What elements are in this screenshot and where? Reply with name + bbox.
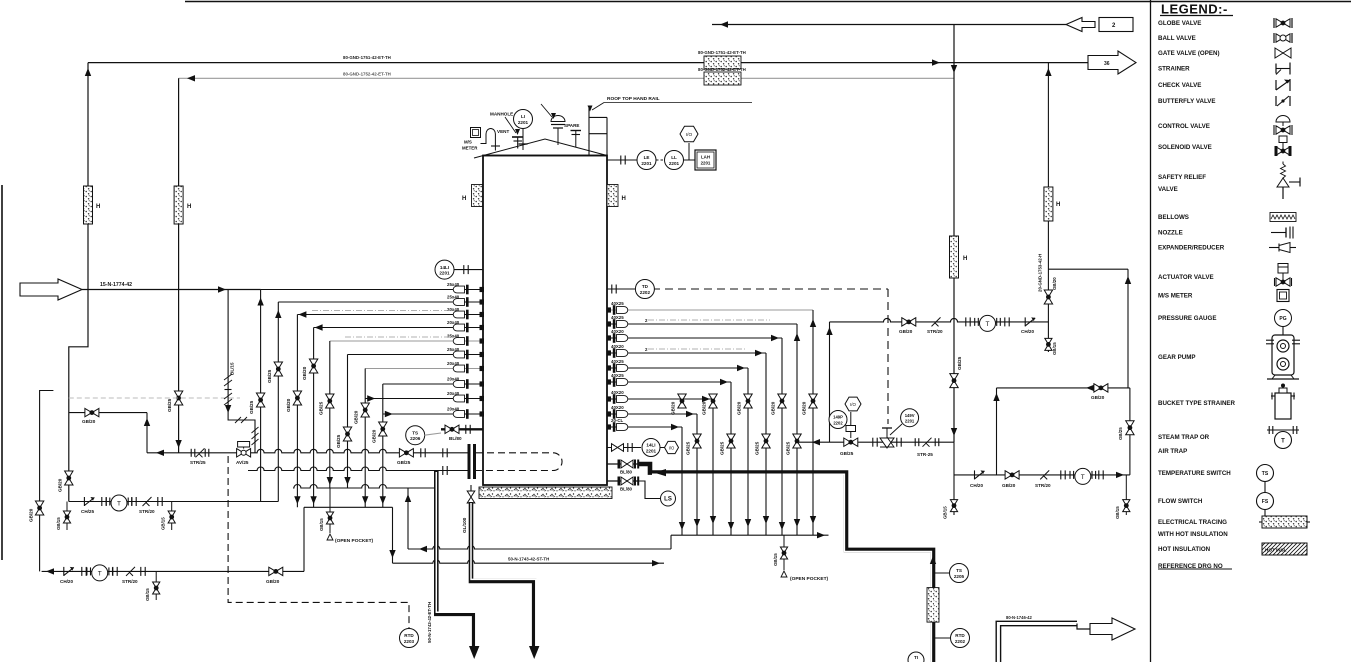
strainer STR-25: [923, 438, 932, 447]
instrument 14LI/2201 bottom: [642, 439, 660, 457]
svg-text:RTD: RTD: [955, 633, 965, 638]
legend symbol expander: [1269, 247, 1279, 249]
svg-text:20x40: 20x40: [447, 307, 460, 312]
pipe to drain pit (double line): [996, 621, 1077, 662]
svg-text:20x40: 20x40: [447, 391, 460, 396]
wire right manifold drop 1: [812, 310, 814, 535]
valve GB/25 right drop 8: [693, 434, 701, 448]
wire collector L2: [293, 485, 436, 489]
legend symbol ref: [1158, 568, 1232, 570]
wire TD tapping: [607, 288, 635, 290]
svg-text:ST-TRACED: ST-TRACED: [934, 597, 938, 619]
svg-text:STRAINER: STRAINER: [1158, 66, 1190, 73]
wire right block right drop: [1129, 388, 1131, 475]
wire tank-left feed row 5: [330, 340, 483, 342]
wire faint line spec row5: [345, 336, 452, 338]
wire faint line spec rowR2: [648, 319, 770, 321]
flow element H left riser 1: [84, 186, 93, 224]
wire tank-right feed row 5: [607, 367, 748, 369]
valve GB/25 on left riser 2: [174, 391, 182, 405]
svg-text:GB/25: GB/25: [686, 441, 691, 455]
wire tank-left feed row 6: [348, 354, 484, 356]
svg-text:VALVE: VALVE: [1158, 186, 1178, 193]
wire right manifold drop 6: [730, 382, 732, 535]
wire tank-right feed row 2: [607, 323, 797, 325]
svg-text:H: H: [187, 204, 191, 210]
steam trap recirc: [974, 318, 976, 326]
svg-text:BL/80: BL/80: [449, 436, 462, 441]
svg-text:ACTUATOR VALVE: ACTUATOR VALVE: [1158, 274, 1214, 281]
breather valve: [551, 116, 565, 122]
svg-text:25x40: 25x40: [447, 282, 460, 287]
svg-text:CH/20: CH/20: [970, 483, 983, 488]
svg-text:GB/25: GB/25: [786, 441, 791, 455]
svg-text:GB/20: GB/20: [771, 401, 776, 415]
svg-text:STR/20: STR/20: [1035, 483, 1051, 488]
svg-text:TEMPERATURE SWITCH: TEMPERATURE SWITCH: [1158, 470, 1231, 477]
svg-text:ROOF TOP HAND RAIL: ROOF TOP HAND RAIL: [607, 96, 660, 102]
drain GB/15 tee a: [66, 502, 68, 531]
svg-text:TD: TD: [642, 284, 649, 289]
wire tank-right feed row 6: [607, 381, 731, 383]
drain GB/15 tee b: [171, 502, 173, 531]
legend symbol ts: [1257, 465, 1274, 482]
svg-text:TI: TI: [914, 655, 918, 660]
wire right block bottom: [954, 474, 1130, 476]
svg-text:2201: 2201: [641, 161, 652, 166]
svg-text:GB/20: GB/20: [737, 401, 742, 415]
svg-text:GLOBE VALVE: GLOBE VALVE: [1158, 20, 1201, 27]
instrument TS/2205: [935, 572, 950, 574]
svg-text:BUTTERFLY VALVE: BUTTERFLY VALVE: [1158, 98, 1216, 105]
svg-text:T: T: [1081, 474, 1085, 481]
legend symbol solenoid: [1276, 147, 1290, 155]
legend symbol et: [1262, 516, 1307, 528]
svg-text:LL: LL: [671, 155, 677, 160]
svg-text:GB/25: GB/25: [267, 369, 272, 383]
svg-text:STEAM TRAP OR: STEAM TRAP OR: [1158, 434, 1210, 441]
steam trap: [86, 567, 88, 575]
open pocket tee left: [329, 488, 331, 533]
svg-text:H: H: [462, 196, 466, 202]
wire tank-left feed row 9: [365, 398, 483, 400]
svg-text:(OPEN POCKET): (OPEN POCKET): [335, 538, 374, 544]
instrument RTD/2203: [400, 629, 419, 648]
flow element H right riser: [950, 236, 959, 278]
wire left riser 2: [178, 78, 180, 453]
wire tank-right feed row 8: [607, 413, 697, 415]
wire LE-LL link: [656, 159, 665, 161]
svg-text:GL/100: GL/100: [462, 517, 467, 533]
tank outlet BL/80 upper: [607, 463, 638, 465]
svg-text:MANHOLE: MANHOLE: [490, 112, 513, 117]
svg-text:GB/25: GB/25: [336, 434, 341, 448]
svg-text:LEGEND:-: LEGEND:-: [1161, 2, 1228, 17]
wire right manifold drop 2: [796, 324, 798, 535]
svg-text:40X20: 40X20: [611, 344, 624, 349]
open pocket tee right: [783, 535, 785, 570]
svg-text:GB/15: GB/15: [145, 588, 150, 601]
valve GB/25 right drop 2: [793, 434, 801, 448]
legend symbol gate: [1275, 48, 1291, 58]
svg-text:14LI: 14LI: [440, 265, 449, 270]
wire top connector line: [712, 24, 1066, 26]
off-page connector top right (incoming): [1066, 18, 1095, 32]
siphon loop: [481, 129, 496, 151]
drain GB/15 tee c: [155, 571, 157, 600]
wire GND riser: [1047, 63, 1049, 352]
svg-text:CHECK VALVE: CHECK VALVE: [1158, 82, 1201, 89]
strainer STR/20 recirc: [932, 317, 941, 326]
valve GB/25 right riser: [950, 374, 958, 388]
wire tank-right feed row 4: [607, 352, 766, 354]
riser to recirculation header: [829, 322, 831, 442]
svg-text:(OPEN POCKET): (OPEN POCKET): [790, 576, 829, 582]
wire steam supply bus: [147, 449, 469, 453]
heavy drain GL/100: [470, 485, 472, 492]
svg-text:STR-25: STR-25: [917, 452, 933, 457]
wire tank-left feed row 2: [278, 301, 483, 303]
svg-text:STR/20: STR/20: [122, 579, 138, 584]
svg-text:M/S METER: M/S METER: [1158, 293, 1193, 300]
svg-text:GB/25: GB/25: [720, 441, 725, 455]
alarm box LAH/2201: [695, 150, 716, 170]
svg-text:SOLENOID VALVE: SOLENOID VALVE: [1158, 144, 1212, 151]
legend symbol trap: [1267, 429, 1299, 431]
legend symbol safety: [1277, 178, 1289, 187]
instrument RTD/2202: [935, 637, 950, 639]
svg-text:GB/20: GB/20: [702, 401, 707, 415]
svg-text:40X20: 40X20: [611, 390, 624, 395]
steam trap rb: [1069, 471, 1071, 479]
svg-text:LI: LI: [521, 114, 525, 119]
wire collector L3: [304, 506, 393, 508]
legend symbol pump: [1272, 335, 1294, 375]
svg-text:H: H: [963, 256, 967, 262]
heavy outlet header H1: [639, 464, 933, 662]
steam trap: [105, 498, 107, 506]
wire faint line spec rowR4: [648, 348, 745, 350]
svg-text:M/S: M/S: [464, 140, 472, 145]
signal dashed vertical: [887, 289, 889, 424]
svg-text:CH/20: CH/20: [1021, 329, 1034, 334]
svg-text:GB/25: GB/25: [840, 451, 854, 456]
svg-text:80-N-1746-42: 80-N-1746-42: [1006, 615, 1033, 620]
wire far-left column: [40, 391, 54, 572]
legend symbol fs: [1257, 493, 1274, 510]
svg-text:GB/20: GB/20: [802, 401, 807, 415]
border top: [185, 1, 1351, 3]
valve GB/20 left drop 4: [309, 359, 317, 373]
wire left manifold drop 7: [364, 369, 366, 508]
svg-text:GEAR PUMP: GEAR PUMP: [1158, 354, 1195, 361]
svg-text:HOT INSL: HOT INSL: [1265, 548, 1287, 553]
svg-text:40X25: 40X25: [611, 373, 624, 378]
svg-text:2205: 2205: [954, 574, 965, 579]
hexagon I/O cv: [845, 397, 861, 411]
svg-text:GB/20: GB/20: [286, 398, 291, 412]
svg-text:GB/15: GB/15: [56, 517, 61, 530]
border left: [1, 185, 3, 560]
svg-text:EXPANDER/REDUCER: EXPANDER/REDUCER: [1158, 245, 1225, 252]
valve GB/20 right drop 9: [678, 394, 686, 408]
electrical tracing symbol on header: [704, 56, 741, 69]
wire left riser 1: [87, 63, 89, 290]
wire tank-left feed row 3: [297, 314, 483, 316]
wire riser 1 lower jog: [69, 290, 88, 502]
svg-text:GB/25: GB/25: [957, 356, 962, 370]
svg-text:15-N-1774-42: 15-N-1774-42: [100, 282, 132, 288]
valve GB/25 right drop 6: [727, 434, 735, 448]
steam traced marker: [927, 588, 939, 623]
instrument LS: [661, 491, 676, 506]
svg-text:METER: METER: [462, 146, 478, 151]
valve GB/20 bottom west: [269, 567, 283, 575]
coil wall flanges: [468, 444, 471, 479]
svg-text:2201: 2201: [439, 270, 450, 275]
legend separator: [1150, 0, 1152, 662]
svg-text:BUCKET TYPE STRAINER: BUCKET TYPE STRAINER: [1158, 400, 1236, 407]
svg-text:GB/20: GB/20: [1002, 483, 1016, 488]
wire right riser lower: [953, 442, 955, 515]
wire faint line spec row3: [312, 310, 452, 312]
svg-text:GB/15: GB/15: [943, 506, 948, 519]
svg-text:14LI: 14LI: [646, 443, 655, 448]
valve GB/25 left drop 2: [274, 362, 282, 376]
svg-text:WITH HOT INSULATION: WITH HOT INSULATION: [1158, 531, 1228, 538]
svg-text:40X25: 40X25: [611, 315, 624, 320]
svg-text:FLOW SWITCH: FLOW SWITCH: [1158, 498, 1203, 505]
svg-text:20x40: 20x40: [447, 407, 460, 412]
wire LL to LAH: [684, 159, 696, 161]
wire tank-left feed row 10: [383, 413, 483, 415]
svg-text:BL/80: BL/80: [620, 470, 633, 475]
actuator valve 149V: [872, 438, 874, 447]
legend symbol check: [1275, 80, 1277, 90]
check valve CH/20 rb: [974, 470, 976, 479]
wire condensate return bus: [248, 467, 469, 471]
svg-text:SPARE: SPARE: [564, 123, 580, 128]
svg-text:CH/20: CH/20: [60, 579, 73, 584]
svg-text:25x40: 25x40: [447, 295, 460, 300]
wire gray second header: [179, 77, 954, 79]
wire bypass riser: [146, 413, 148, 453]
svg-text:CONTROL VALVE: CONTROL VALVE: [1158, 123, 1210, 130]
svg-text:2201: 2201: [905, 419, 915, 424]
svg-text:T: T: [117, 501, 121, 508]
svg-text:20-GND-1753-42-H: 20-GND-1753-42-H: [1038, 254, 1043, 292]
svg-text:GB/20: GB/20: [354, 410, 359, 424]
legend symbol globe: [1276, 19, 1290, 27]
wire right block riser: [996, 388, 998, 475]
valve GB/20 right drop 7: [709, 394, 717, 408]
svg-text:GB/20: GB/20: [899, 329, 913, 334]
nozzle H tank right: [607, 185, 618, 207]
svg-text:149V: 149V: [905, 413, 915, 418]
legend symbol hi: [1262, 543, 1307, 555]
svg-text:GB/20: GB/20: [58, 478, 63, 492]
wire right manifold drop 9: [681, 427, 683, 535]
wire line B: [393, 560, 665, 564]
strainer STR/25: [196, 448, 205, 457]
svg-text:LS: LS: [664, 497, 672, 503]
wire LE tapping: [607, 159, 637, 161]
svg-text:T: T: [98, 570, 102, 577]
legend symbol ball: [1276, 34, 1290, 42]
valve GB/20 right block: [1094, 384, 1108, 392]
wire tank-left feed row 7: [365, 368, 483, 370]
svg-text:80-GND-1752-42-ET-TH: 80-GND-1752-42-ET-TH: [698, 67, 746, 72]
level instrument LI/2201 on roof: [514, 110, 533, 129]
svg-text:GB/25: GB/25: [397, 460, 411, 465]
wire right manifold drop 5: [747, 368, 749, 535]
svg-text:80-GND-1751-42-ET-TH: 80-GND-1751-42-ET-TH: [698, 50, 746, 55]
svg-text:40X25: 40X25: [611, 301, 624, 306]
strainer STR/20 rb: [1040, 470, 1049, 479]
tank outlet BL/80 lower: [607, 480, 638, 482]
svg-text:BL/15: BL/15: [230, 362, 235, 375]
svg-text:GB/20: GB/20: [29, 508, 34, 522]
svg-text:ELECTRICAL TRACING: ELECTRICAL TRACING: [1158, 519, 1227, 526]
svg-text:RTD: RTD: [404, 633, 414, 638]
valve GB/15 GND drop: [1045, 338, 1052, 350]
svg-text:GB/25: GB/25: [1118, 427, 1123, 440]
legend symbol control: [1276, 126, 1290, 134]
valve GB/20 on left drop: [65, 471, 73, 485]
roof top hand rail: [588, 108, 590, 156]
svg-text:STR/20: STR/20: [139, 509, 155, 514]
svg-text:GB/15: GB/15: [319, 518, 324, 531]
valve GB/20 right drop 5: [744, 394, 752, 408]
wire riser A to L2: [407, 488, 409, 549]
legend symbol bellows: [1270, 213, 1296, 222]
svg-text:SAFETY RELIEF: SAFETY RELIEF: [1158, 174, 1206, 181]
wire 14LI tapping: [454, 269, 483, 271]
wire main right riser: [953, 25, 955, 443]
svg-text:H: H: [622, 196, 626, 202]
svg-text:80-GND-1751-42-ET-TH: 80-GND-1751-42-ET-TH: [343, 55, 391, 60]
valve GB/25 left drop 1: [256, 393, 264, 407]
svg-text:I/O: I/O: [850, 402, 856, 407]
wire left manifold drop 5: [329, 341, 331, 488]
svg-text:PG: PG: [1279, 316, 1286, 322]
svg-text:20x40: 20x40: [447, 377, 460, 382]
wire TS stub: [425, 433, 442, 435]
wire riser to L3: [303, 507, 305, 571]
svg-text:80-GND-1752-42-ET-TH: 80-GND-1752-42-ET-TH: [343, 72, 391, 77]
svg-text:GB/20: GB/20: [1091, 395, 1105, 400]
svg-text:2202: 2202: [640, 290, 651, 295]
wire left manifold drop 8: [382, 384, 384, 507]
legend symbol pg: [1275, 310, 1292, 327]
wire LS tapping: [639, 481, 661, 499]
wire tank-left feed row 1: [261, 289, 483, 291]
nozzle H tank left: [472, 185, 483, 207]
valve GB/25 left drop 6: [343, 427, 351, 441]
wire tank-left feed row 4: [314, 327, 483, 329]
instrument TI partial bottom: [908, 652, 924, 662]
signal dashed run: [228, 456, 409, 628]
wire left manifold drop 1: [260, 290, 262, 502]
strainer STR/20: [143, 497, 152, 506]
heating coil (dashed): [476, 453, 562, 471]
svg-text:GB/25: GB/25: [167, 398, 172, 412]
valve GB/20 far-left column: [35, 501, 43, 515]
valve GB/20 recirc: [902, 318, 916, 326]
legend symbol actuator: [1276, 278, 1290, 286]
svg-text:H: H: [1056, 202, 1060, 208]
wire main top header: [88, 62, 1088, 64]
svg-text:2201: 2201: [701, 161, 711, 166]
tank vessel T-2201 shell: [483, 156, 607, 486]
valve GB/20 right drop 3: [778, 394, 786, 408]
svg-text:GB/20: GB/20: [671, 401, 676, 415]
svg-text:TS: TS: [412, 430, 418, 435]
wire drop to line B: [392, 507, 394, 563]
svg-text:2202: 2202: [955, 639, 966, 644]
check valve CH/20 recirc: [1024, 317, 1026, 326]
legend symbol strainer: [1275, 64, 1277, 74]
instrument LL/2201: [665, 151, 684, 170]
svg-text:2206: 2206: [410, 436, 421, 441]
svg-text:GB/25: GB/25: [318, 401, 323, 415]
valve GB/25 coil inlet: [399, 449, 413, 457]
svg-text:PRESSURE GAUGE: PRESSURE GAUGE: [1158, 315, 1216, 322]
svg-text:CH/25: CH/25: [81, 509, 94, 514]
svg-text:2201: 2201: [518, 120, 529, 125]
svg-text:AV/25: AV/25: [236, 460, 249, 465]
valve GB/20 left drop 7: [361, 403, 369, 417]
svg-text:GB/20: GB/20: [266, 579, 280, 584]
svg-text:50-N-1743-42-ST-TH: 50-N-1743-42-ST-TH: [508, 557, 549, 562]
svg-text:36: 36: [1104, 61, 1110, 67]
valve GB/20 rb: [1005, 471, 1019, 479]
wire right manifold drop 4: [765, 353, 767, 535]
svg-text:25x40: 25x40: [447, 347, 460, 352]
wire GND cross link: [1048, 268, 1128, 270]
wire tank-right feed row 3: [607, 337, 782, 339]
instrument 14LI/2201: [435, 260, 454, 279]
svg-text:GB/15: GB/15: [773, 553, 778, 566]
svg-text:149P: 149P: [833, 415, 843, 420]
wire inlet line: [82, 289, 261, 291]
wire right manifold drop 3: [781, 338, 783, 535]
svg-text:2203: 2203: [404, 639, 415, 644]
svg-text:LAH: LAH: [701, 155, 710, 160]
check valve CH/25: [83, 497, 85, 506]
svg-text:GB/15: GB/15: [1052, 342, 1057, 355]
instrument LE/2201: [637, 151, 656, 170]
M/S meter on roof: [471, 128, 481, 138]
wire tank-right feed row 9: [607, 426, 682, 428]
svg-text:NOZZLE: NOZZLE: [1158, 230, 1183, 237]
legend symbol butterfly: [1275, 96, 1277, 106]
svg-text:40X20: 40X20: [611, 405, 624, 410]
svg-text:2201: 2201: [646, 448, 657, 453]
svg-text:20x40: 20x40: [447, 320, 460, 325]
svg-text:GB/15: GB/15: [161, 517, 166, 530]
off-page arrow bottom right: [1090, 618, 1135, 640]
svg-text:GB/15: GB/15: [1115, 506, 1120, 519]
valve GB/20 GND riser: [1044, 290, 1052, 304]
off-page connector top right (outgoing): [1088, 51, 1136, 74]
wire tank-left feed row 8: [383, 383, 483, 385]
wire tank-right feed row 7: [607, 398, 713, 400]
svg-text:BALL VALVE: BALL VALVE: [1158, 35, 1196, 42]
wire line A: [408, 546, 671, 550]
wire left manifold drop 3: [296, 315, 298, 508]
svg-text:20x40: 20x40: [447, 361, 460, 366]
